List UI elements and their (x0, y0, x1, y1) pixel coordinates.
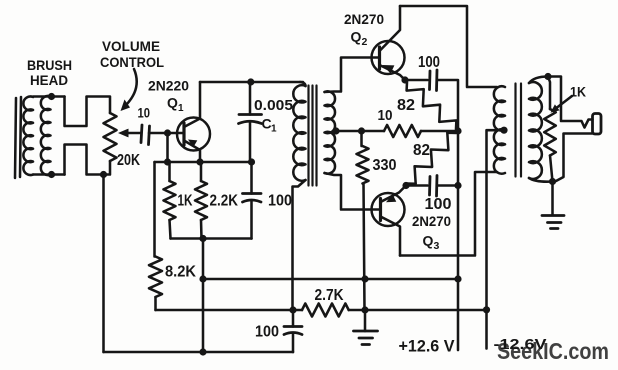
transformer T2 primary winding (494, 86, 505, 173)
wire Q3 collector rail (400, 172, 497, 256)
node mix junction (454, 127, 461, 134)
transistor Q1 circle (177, 118, 210, 151)
capacitor 100 bottom plate (bottom cap) (284, 333, 302, 335)
capacitor 100 top (Q2) right plate (435, 70, 438, 91)
svg-text:100: 100 (425, 196, 452, 213)
wire junction down (457, 131, 460, 279)
earphone jack plug (593, 114, 602, 135)
node C1 top (247, 78, 254, 85)
wire bias line right (365, 309, 487, 312)
label arrow 1K (557, 96, 572, 108)
wire earphone return (553, 134, 594, 182)
wire T2 center tap (487, 130, 505, 348)
transformer T1 core (307, 86, 309, 186)
wire to earphone (548, 77, 593, 128)
resistor 2.2K (195, 181, 207, 220)
transformer T2 core (514, 84, 516, 177)
wire T1 secondary top lead to Q2 base (325, 58, 379, 93)
resistor 2.2K lead top (200, 162, 203, 181)
transformer T2 secondary winding (529, 82, 542, 179)
wire Q2 collector rail (400, 6, 497, 87)
svg-text:82: 82 (413, 142, 430, 159)
wire 1K bottom lead (550, 156, 553, 182)
svg-text:2: 2 (362, 36, 368, 48)
node bottom rail center (199, 348, 206, 355)
svg-text:2.2K: 2.2K (210, 193, 239, 210)
wire 8.2K top lead (153, 162, 156, 257)
node 2.7K right (361, 306, 368, 313)
wire base node down (166, 133, 169, 162)
capacitor 10 left plate (141, 125, 142, 143)
wiper arrow of 20K pot (118, 129, 129, 138)
resistor 330 (357, 146, 369, 184)
wire T2 secondary bottom lead (529, 178, 553, 182)
svg-text:BRUSH: BRUSH (27, 57, 72, 73)
resistor 82 top (407, 82, 457, 129)
wire T2 secondary top lead (529, 77, 548, 84)
svg-text:2N220: 2N220 (148, 78, 189, 94)
node bottom rail (199, 235, 206, 242)
node 2.7K left (289, 306, 296, 313)
svg-text:330: 330 (373, 157, 397, 174)
capacitor 100 lead top (bottom cap) (292, 310, 295, 327)
wire +12.6V drop (457, 279, 460, 350)
transistor Q2 collector (380, 6, 401, 51)
svg-text:10: 10 (378, 108, 393, 124)
wire bias line (156, 309, 303, 312)
node secondary bottom (549, 178, 556, 185)
resistor 8.2K (149, 257, 162, 298)
svg-text:Q: Q (167, 95, 178, 111)
svg-text:VOLUME: VOLUME (102, 38, 160, 54)
transformer T1 secondary winding (325, 91, 336, 173)
node Q1 base (164, 129, 171, 136)
wire pot bottom drop (102, 175, 105, 353)
transistor Q1 emitter (184, 141, 200, 163)
wire cable top conductor (65, 97, 111, 127)
transformer T1 primary winding (293, 85, 305, 181)
capacitor C1 lead top (249, 82, 252, 115)
wire cap to right vertical (438, 80, 459, 131)
svg-text:10: 10 (138, 105, 151, 121)
resistor 10 (384, 125, 421, 137)
resistor 2.2K lead bottom (200, 220, 203, 239)
resistor 1K lead top (168, 162, 171, 181)
wire Q1 collector rail (200, 81, 303, 84)
brush head core line 1 (15, 98, 16, 178)
node T1 center tap (332, 127, 339, 134)
transistor Q3 circle (372, 193, 405, 226)
wire T1 secondary bottom lead to Q3 base (325, 173, 381, 210)
node middle rail right (248, 158, 255, 165)
svg-text:CONTROL: CONTROL (100, 54, 164, 70)
wire bottom rail (104, 351, 294, 354)
capacitor 100 lead top (250, 162, 253, 194)
capacitor 100 top (Q2) left plate (428, 71, 431, 90)
svg-text:8.2K: 8.2K (165, 264, 197, 281)
volume control pointer arrow (127, 69, 137, 105)
wire cap to junction line (438, 184, 459, 187)
svg-text:HEAD: HEAD (30, 72, 68, 88)
svg-text:100: 100 (255, 324, 279, 341)
wire Q1 middle rail (155, 161, 252, 164)
wire 10 to junction (421, 130, 458, 133)
capacitor 100 (Q3) left plate (428, 177, 431, 196)
wire cable bottom conductor (65, 145, 111, 175)
resistor 1K (164, 181, 176, 220)
wire Q1 bottom rail (171, 237, 252, 240)
transistor Q3 collector (381, 217, 401, 256)
node center tap to bias line (483, 306, 490, 313)
brush head pickup coil left column (23, 96, 33, 175)
brush head pickup coil right column (41, 96, 51, 175)
svg-text:Q: Q (351, 29, 362, 45)
wire base node to Q1 (168, 132, 184, 135)
ground symbol (secondary) (542, 214, 564, 217)
node secondary top (544, 73, 551, 80)
transistor Q1 collector (184, 82, 200, 127)
capacitor 100 (Q3) right plate (435, 176, 438, 197)
transistor Q2 base bar (378, 47, 381, 69)
node bottom cap right (454, 182, 461, 189)
node rail right end (454, 275, 461, 282)
wire Q3 emitter to cap (406, 184, 428, 187)
resistor 1K lead bottom (170, 220, 171, 239)
capacitor C1 top plate (239, 113, 262, 116)
transistor Q1 base bar (182, 123, 185, 145)
svg-text:100: 100 (418, 54, 440, 71)
capacitor 100 lead bottom (bottom cap) (292, 334, 295, 352)
capacitor 100 top plate (bottom cap) (284, 325, 302, 328)
wire center tap (336, 130, 384, 133)
resistor 2.7K (302, 304, 349, 317)
wire rail to T1 primary top (300, 82, 306, 86)
svg-text:3: 3 (434, 240, 440, 252)
wire Q2 emitter to cap (405, 79, 428, 82)
node T2 center tap (500, 127, 507, 134)
transistor Q3 emitter (381, 186, 407, 203)
wire supply rail (203, 278, 458, 281)
node 330 top (358, 127, 365, 134)
node mid rail crossing (199, 275, 206, 282)
wire coil top (33, 95, 65, 98)
node coil top (48, 93, 55, 100)
potentiometer 20K volume control (104, 113, 117, 161)
svg-text:1: 1 (178, 103, 184, 114)
svg-text:2N270: 2N270 (412, 213, 451, 229)
wire T1 primary bottom lead (293, 180, 306, 310)
resistor 82 bottom (407, 133, 456, 184)
capacitor C1 lead bottom (249, 123, 252, 162)
node coil bottom (48, 171, 55, 178)
capacitor 10 right plate (149, 126, 150, 145)
svg-text:2.7K: 2.7K (315, 287, 345, 304)
transistor Q3 base bar (379, 199, 382, 221)
wire 330 top lead (360, 131, 363, 146)
wire 2.7K right lead (349, 309, 365, 312)
svg-text:1: 1 (271, 124, 277, 135)
capacitor 100 lead bottom (250, 202, 253, 239)
node Q2 emitter (401, 76, 408, 83)
svg-text:100: 100 (268, 193, 292, 210)
wire coil bottom (33, 173, 65, 176)
transistor Q2 circle (372, 41, 405, 74)
node Q1 emitter junction (196, 158, 203, 165)
svg-text:2N270: 2N270 (344, 11, 384, 27)
svg-text:82: 82 (397, 97, 415, 114)
resistor 8.2K lead bottom (154, 297, 157, 310)
brush head core line 2 (20, 97, 21, 177)
capacitor 100 top plate (243, 192, 262, 195)
wire 330 bottom lead (364, 184, 365, 311)
transistor Q2 emitter (380, 65, 406, 80)
wire ground stem (364, 310, 367, 331)
wire cap to base node (149, 132, 168, 135)
wire down from bottom rail (202, 239, 205, 353)
node pot bottom (100, 171, 107, 178)
capacitor C1 bottom plate (239, 121, 262, 123)
ground symbol (2.7K) (354, 330, 378, 333)
svg-text:+12.6 V: +12.6 V (399, 337, 456, 356)
node Q3 emitter (402, 182, 409, 189)
wire ground stem (secondary) (551, 182, 554, 216)
node base-R junction (164, 158, 171, 165)
node 330 rail crossing (361, 275, 368, 282)
capacitor 100 bottom plate (243, 200, 262, 202)
svg-text:SeekIC.com: SeekIC.com (497, 338, 609, 364)
resistor 1K (output) (544, 109, 556, 156)
svg-text:Q: Q (423, 233, 434, 249)
svg-text:0.005: 0.005 (254, 97, 293, 114)
wire 1K top lead (548, 77, 550, 110)
svg-text:20K: 20K (117, 152, 141, 169)
svg-text:1K: 1K (178, 193, 194, 210)
